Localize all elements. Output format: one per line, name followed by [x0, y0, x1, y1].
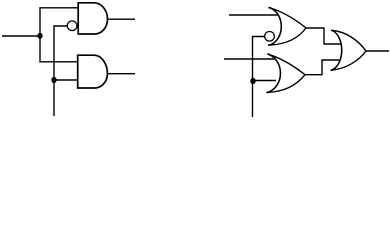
wire input A left [2, 35, 40, 37]
wire U4 output step [305, 60, 340, 75]
wire input C top right [229, 14, 278, 16]
inverter bubble U1 input [67, 21, 77, 31]
wire input E vertical with turn to U3 bubble [253, 37, 265, 118]
wire input B vertical with turn to U1 bubble [54, 26, 68, 116]
OR gate U3 body [268, 8, 306, 46]
wire U3 output step [306, 28, 341, 44]
OR gate U5 back arc [331, 30, 342, 70]
node junction B dot [51, 77, 56, 83]
wire U1 output [107, 18, 136, 20]
OR gate U4 body [267, 54, 306, 93]
node junction E dot [250, 78, 255, 84]
wire U2 output [108, 73, 136, 75]
OR gate U3 back arc [268, 8, 281, 46]
OR gate U5 body [331, 30, 366, 70]
inverter bubble U3 input [265, 31, 275, 41]
OR gate U4 back arc [267, 54, 281, 93]
AND gate U2 [78, 55, 108, 88]
AND gate U1 [78, 3, 107, 34]
wire U5 output [366, 50, 389, 52]
wire input D horizontal [224, 58, 275, 60]
wire to U2 bottom input [54, 79, 78, 81]
node junction A dot [37, 33, 42, 39]
wire to U4 bottom input [253, 80, 276, 82]
wire A branch: up to U1 top input, down to U2 top input [40, 8, 78, 62]
